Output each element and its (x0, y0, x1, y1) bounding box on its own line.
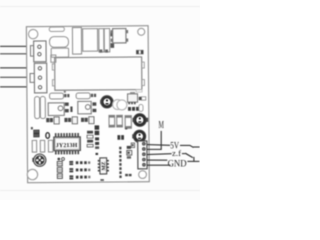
dark bar between trimmers (70, 107, 72, 113)
vertical pads column (95, 125, 100, 129)
B-shaped pad pair (34, 130, 40, 133)
small dash bottom (100, 179, 104, 181)
svg-text:GND: GND (168, 159, 187, 170)
K1 bottom step (136, 90, 142, 92)
tiny dash below capacitor row (125, 128, 127, 130)
mounting hole bottom-left (27, 169, 37, 179)
svg-text:M: M (159, 120, 164, 131)
capacitor row C3 (109, 115, 115, 127)
K1 left tab2 (52, 80, 55, 86)
striped capacitor C? (99, 29, 104, 52)
connector J2 pin2 (38, 76, 41, 79)
resistor network row 3 (69, 175, 86, 179)
switch contact stub (193, 157, 195, 162)
passives row group2 pads (64, 118, 67, 122)
pads column mid-right (127, 146, 131, 149)
switch blade (185, 153, 193, 157)
pad pair bottom (125, 174, 128, 176)
wire pin2 stub (147, 148, 162, 150)
rectangular component below oval (51, 48, 68, 57)
J3 pin2 (142, 147, 145, 150)
transistor Q1 (SOT) (130, 92, 135, 94)
wire 5V edge segment (193, 146, 199, 148)
electrolytic twin bars C9 (35, 97, 40, 119)
component column (sun glyphs) 1 (57, 161, 62, 166)
test point pads (57, 158, 60, 161)
wire 5V right segment (180, 145, 194, 147)
slot footprint 2 (40, 140, 44, 152)
small pad above U2 (95, 153, 98, 155)
connector J1 pin2 (38, 52, 41, 55)
svg-text:JY213H: JY213H (56, 143, 78, 149)
IC U1 body JY213H (54, 137, 81, 151)
pad ring 0 left of U1 (46, 133, 50, 139)
connector J2 pin1 (38, 67, 41, 70)
capacitor footprint pill top-left (49, 27, 64, 32)
wire to J2 pin1 (0, 67, 35, 69)
J3 pin4 (142, 158, 145, 161)
slot footprint 3 (48, 140, 52, 152)
svg-text:z.f: z.f (172, 148, 181, 158)
J3 pin1 (142, 142, 145, 145)
small vertical pill (139, 104, 143, 111)
mounting hole top-right (138, 28, 145, 35)
passives row group1 pads (46, 118, 49, 122)
wire to J2 pin3 (0, 86, 35, 88)
wire to J1 pin1 (0, 45, 34, 47)
wire pin4 to GND (147, 159, 167, 161)
J3 pin3 (142, 153, 145, 156)
pads left of switch (110, 32, 114, 37)
wire GND right segment (187, 160, 199, 162)
connector J1 body (34, 41, 47, 62)
2-pad part below top-right hole (136, 50, 143, 54)
K1 right tab2 (142, 80, 145, 86)
mounting hole bottom-right (139, 171, 147, 179)
tall component A (72, 28, 81, 55)
tact switch SW1 (113, 28, 126, 43)
slot footprint 1 (32, 140, 36, 152)
trimmer VR2 (78, 101, 91, 114)
2-pad part right (142, 97, 146, 100)
electrolytic twin bars C10 (40, 97, 45, 119)
svg-text:MZ: MZ (101, 161, 107, 170)
K1 left tab1 (52, 64, 55, 70)
wire pin5 stub (147, 164, 171, 166)
twin light circles C2 (113, 100, 123, 110)
electrolytic capacitor C7 (dark ring) (133, 130, 145, 142)
PCB board outline (26, 26, 149, 183)
Q1 pad row (128, 107, 131, 111)
figure frame top line (0, 6, 200, 8)
J3 pin5 (142, 163, 145, 166)
connector J3 body (138, 141, 147, 169)
wire M vertical drop (160, 131, 162, 150)
tall component B (83, 29, 98, 52)
resistor R2 row (76, 93, 90, 99)
electrolytic capacitor C1 (crescent top) (101, 96, 113, 108)
K1 right tab1 (142, 62, 145, 68)
passives row group3 pads (81, 118, 84, 122)
wire M (pin1 to 5V label line) (147, 144, 170, 147)
figure frame bottom line (0, 190, 200, 192)
resistor network row 1 (69, 161, 86, 165)
wire to J1 pin2 (0, 53, 34, 55)
connector J1 bracket (30, 46, 33, 57)
trimmer VR1 (48, 103, 64, 116)
K1 notch (51, 55, 56, 62)
IC U2 rotated (98, 160, 109, 172)
pad bars right of U1 (87, 131, 93, 134)
connector J2 body (34, 63, 47, 93)
passives row group3 cap (89, 117, 94, 124)
wire to J2 pin2 (0, 76, 35, 78)
resistor R1 row (50, 93, 64, 99)
small square left of J3 (131, 143, 134, 148)
passives row group2 cap (72, 117, 77, 124)
connector J1 pin1 (38, 45, 41, 48)
component column 2 (57, 168, 62, 173)
connector J2 pin3 (38, 86, 41, 89)
IC U1 top pins (55, 133, 79, 137)
mounting hole top-left (28, 29, 37, 38)
electrolytic capacitor C8 (cross top) (32, 158, 34, 162)
component column 3 (57, 174, 62, 179)
small dark dot left edge (31, 127, 33, 129)
capacitor C4 (117, 115, 123, 127)
passives row group1 cap (54, 117, 59, 124)
wire z.f stub (182, 153, 185, 155)
electrolytic capacitor C6 (dark ring) (133, 114, 146, 127)
diode pair pads (117, 135, 120, 140)
connector J2 bracket (30, 74, 34, 83)
IC U1 bottom pins (55, 151, 79, 155)
wire pin3 to z.f (147, 153, 172, 156)
relay/cap oval outline (49, 37, 68, 48)
resistor network row 2 (69, 168, 86, 172)
large central component K1 (55, 57, 142, 90)
via column (119, 147, 122, 178)
capacitor C5 (125, 116, 131, 129)
